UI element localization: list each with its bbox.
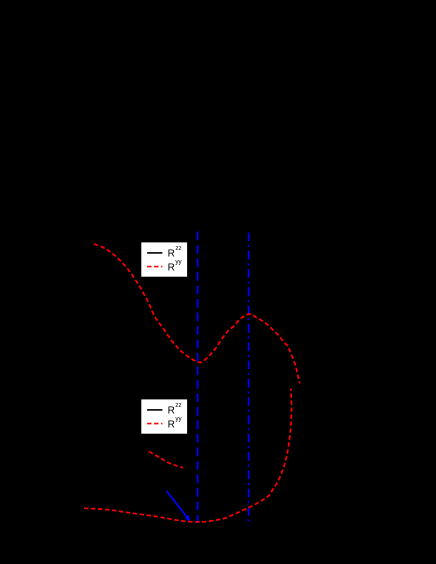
legend upper R^yy marker line (147, 266, 162, 268)
svg-text:R: R (168, 406, 175, 417)
annotation arrow (blue) (167, 491, 187, 517)
svg-text:zz: zz (175, 245, 181, 252)
legend box lower (141, 399, 188, 434)
svg-text:yy: yy (175, 416, 182, 423)
legend lower R^yy marker line (147, 423, 162, 425)
svg-text:R: R (168, 249, 175, 260)
svg-text:R: R (168, 262, 175, 273)
legend box upper (141, 242, 188, 277)
annotation arrow head (184, 515, 190, 521)
vertical line LAC1 (blue dashed) (197, 232, 199, 524)
legend lower R^zz marker line (147, 409, 162, 411)
R^yy curve lower panel long branch (red dashed) (84, 389, 292, 523)
legend upper R^zz marker line (147, 252, 162, 254)
vertical line LAC2 (blue dash-dot) (248, 233, 250, 526)
R^yy curve upper panel (red dashed) (94, 244, 300, 384)
R^yy curve lower panel short branch (red dashed) (149, 452, 183, 468)
svg-text:yy: yy (175, 259, 182, 266)
svg-text:R: R (168, 419, 175, 430)
svg-text:zz: zz (175, 402, 181, 409)
